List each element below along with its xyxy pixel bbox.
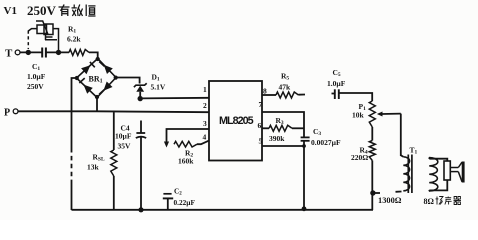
resistor RSL 13k (111, 150, 117, 176)
svg-text:13k: 13k (87, 163, 100, 172)
svg-text:RSL: RSL (93, 153, 105, 163)
node junction at T/V1 (26, 50, 31, 55)
wire R1 to BR1 top (89, 52, 98, 58)
wire pin 5 to C3 bottom (262, 145, 304, 147)
svg-text:D1: D1 (152, 73, 160, 83)
svg-text:R5: R5 (281, 72, 289, 82)
svg-text:2: 2 (203, 101, 207, 110)
svg-text:T: T (5, 48, 13, 60)
svg-text:160k: 160k (178, 157, 194, 166)
wire BR1 bottom vertex to pin 2 (96, 98, 98, 112)
bridge rectifier BR1 (77, 59, 117, 98)
speaker 8 ohm (444, 161, 450, 180)
title chinese 有效值 (59, 5, 96, 17)
svg-text:BR1: BR1 (89, 75, 103, 85)
svg-text:1300Ω: 1300Ω (378, 196, 402, 205)
varistor V1 body (28, 21, 58, 52)
node rail junction C3 (302, 206, 307, 211)
capacitor C4 10uF 35V (140, 121, 142, 134)
wire pin 8 (262, 94, 276, 96)
pin numbers (203, 85, 268, 146)
wire secondary top to speaker (429, 158, 448, 162)
svg-text:4: 4 (203, 133, 207, 142)
svg-text:R1: R1 (68, 25, 76, 35)
wire C5 to P1 (339, 93, 372, 101)
capacitor C2 0.22uF (163, 193, 171, 195)
title V1 250V RMS text (4, 3, 57, 18)
wire BR1 left vertex to bottom rail (72, 78, 77, 148)
svg-text:390k: 390k (269, 134, 285, 143)
svg-text:5: 5 (259, 137, 263, 146)
svg-text:1.0µF: 1.0µF (327, 79, 346, 88)
node rail junction C4 (138, 207, 143, 212)
svg-text:6.2k: 6.2k (67, 35, 81, 44)
svg-text:R3: R3 (276, 116, 284, 126)
label C1 value (27, 62, 46, 91)
wire D1 to pin 1 (140, 97, 209, 100)
varistor V1 dashed left lead (27, 31, 29, 50)
resistor R3 390k (262, 127, 269, 129)
potentiometer P1 10k (369, 101, 375, 127)
svg-text:8Ω: 8Ω (424, 197, 435, 206)
svg-text:ML8205: ML8205 (219, 115, 254, 127)
svg-text:35V: 35V (118, 142, 132, 151)
wire secondary bottom to speaker (429, 180, 448, 191)
wire pin2 line down to RSL (113, 112, 115, 150)
svg-text:V1: V1 (4, 5, 17, 17)
wire T to C1 (20, 51, 42, 53)
node junction R4 line / transformer primary return (370, 190, 375, 195)
resistor R4 220 (369, 141, 375, 161)
svg-text:1.0µF: 1.0µF (27, 72, 46, 81)
svg-text:7: 7 (259, 100, 263, 109)
transformer T1 core (407, 155, 409, 194)
wire pin 3 to R2 arrow (167, 129, 210, 142)
svg-text:0.0027µF: 0.0027µF (311, 138, 341, 147)
svg-text:6: 6 (258, 121, 262, 130)
svg-text:0.22µF: 0.22µF (174, 198, 196, 207)
wire P1 wiper to transformer primary (400, 114, 402, 156)
wire P to pin2 node (18, 110, 97, 112)
svg-text:C3: C3 (313, 127, 321, 137)
svg-text:C5: C5 (333, 68, 341, 78)
transformer T1 secondary winding (429, 158, 438, 192)
resistor R5 47k (276, 92, 299, 98)
zener diode D1 5.1V (134, 83, 147, 87)
svg-text:220Ω: 220Ω (351, 153, 368, 162)
svg-text:C1: C1 (32, 62, 40, 72)
wire P1 to R4 (371, 127, 373, 141)
svg-text:10k: 10k (352, 111, 365, 120)
wire bottom ground rail (72, 209, 374, 211)
svg-text:3: 3 (203, 119, 207, 128)
svg-text:5.1V: 5.1V (151, 83, 166, 92)
wire BR1 right vertex to D1 (116, 78, 140, 84)
svg-text:10µF: 10µF (115, 132, 132, 141)
svg-text:C2: C2 (174, 187, 182, 197)
resistor R2 160k (174, 141, 197, 147)
node junction V1 right / C1 right (56, 50, 61, 55)
transformer T1 primary winding (403, 157, 409, 191)
svg-text:250V: 250V (27, 82, 44, 91)
svg-text:250V: 250V (27, 3, 57, 18)
svg-text:P: P (4, 108, 10, 119)
svg-text:1: 1 (203, 85, 207, 94)
op-amp/IC U1 ML8205 (209, 81, 262, 161)
node D1 anode junction (138, 96, 143, 101)
capacitor C5 1.0uF (332, 93, 335, 95)
capacitor C3 0.0027uF (301, 136, 310, 138)
wire pin 7 to C3 (262, 112, 304, 137)
capacitor C1 (41, 48, 43, 58)
svg-text:T1: T1 (410, 146, 418, 156)
svg-text:47k: 47k (279, 83, 292, 92)
resistor R1 6.2k (69, 49, 89, 55)
